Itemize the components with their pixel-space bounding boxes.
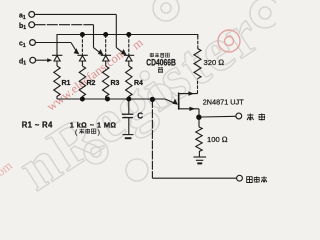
svg-text:CD4066B: CD4066B [146,58,176,68]
svg-text:320 Ω: 320 Ω [204,58,225,67]
svg-text:2N4871 UJT: 2N4871 UJT [203,97,245,106]
svg-text:R2: R2 [87,80,96,87]
svg-text:R1 ~ R4: R1 ~ R4 [22,120,53,129]
svg-text:R1: R1 [62,80,71,87]
svg-text:R3: R3 [111,80,120,87]
svg-text:): ) [98,129,100,136]
svg-text:100 Ω: 100 Ω [207,135,228,144]
svg-text:R4: R4 [134,80,143,87]
svg-text:C: C [137,112,143,121]
